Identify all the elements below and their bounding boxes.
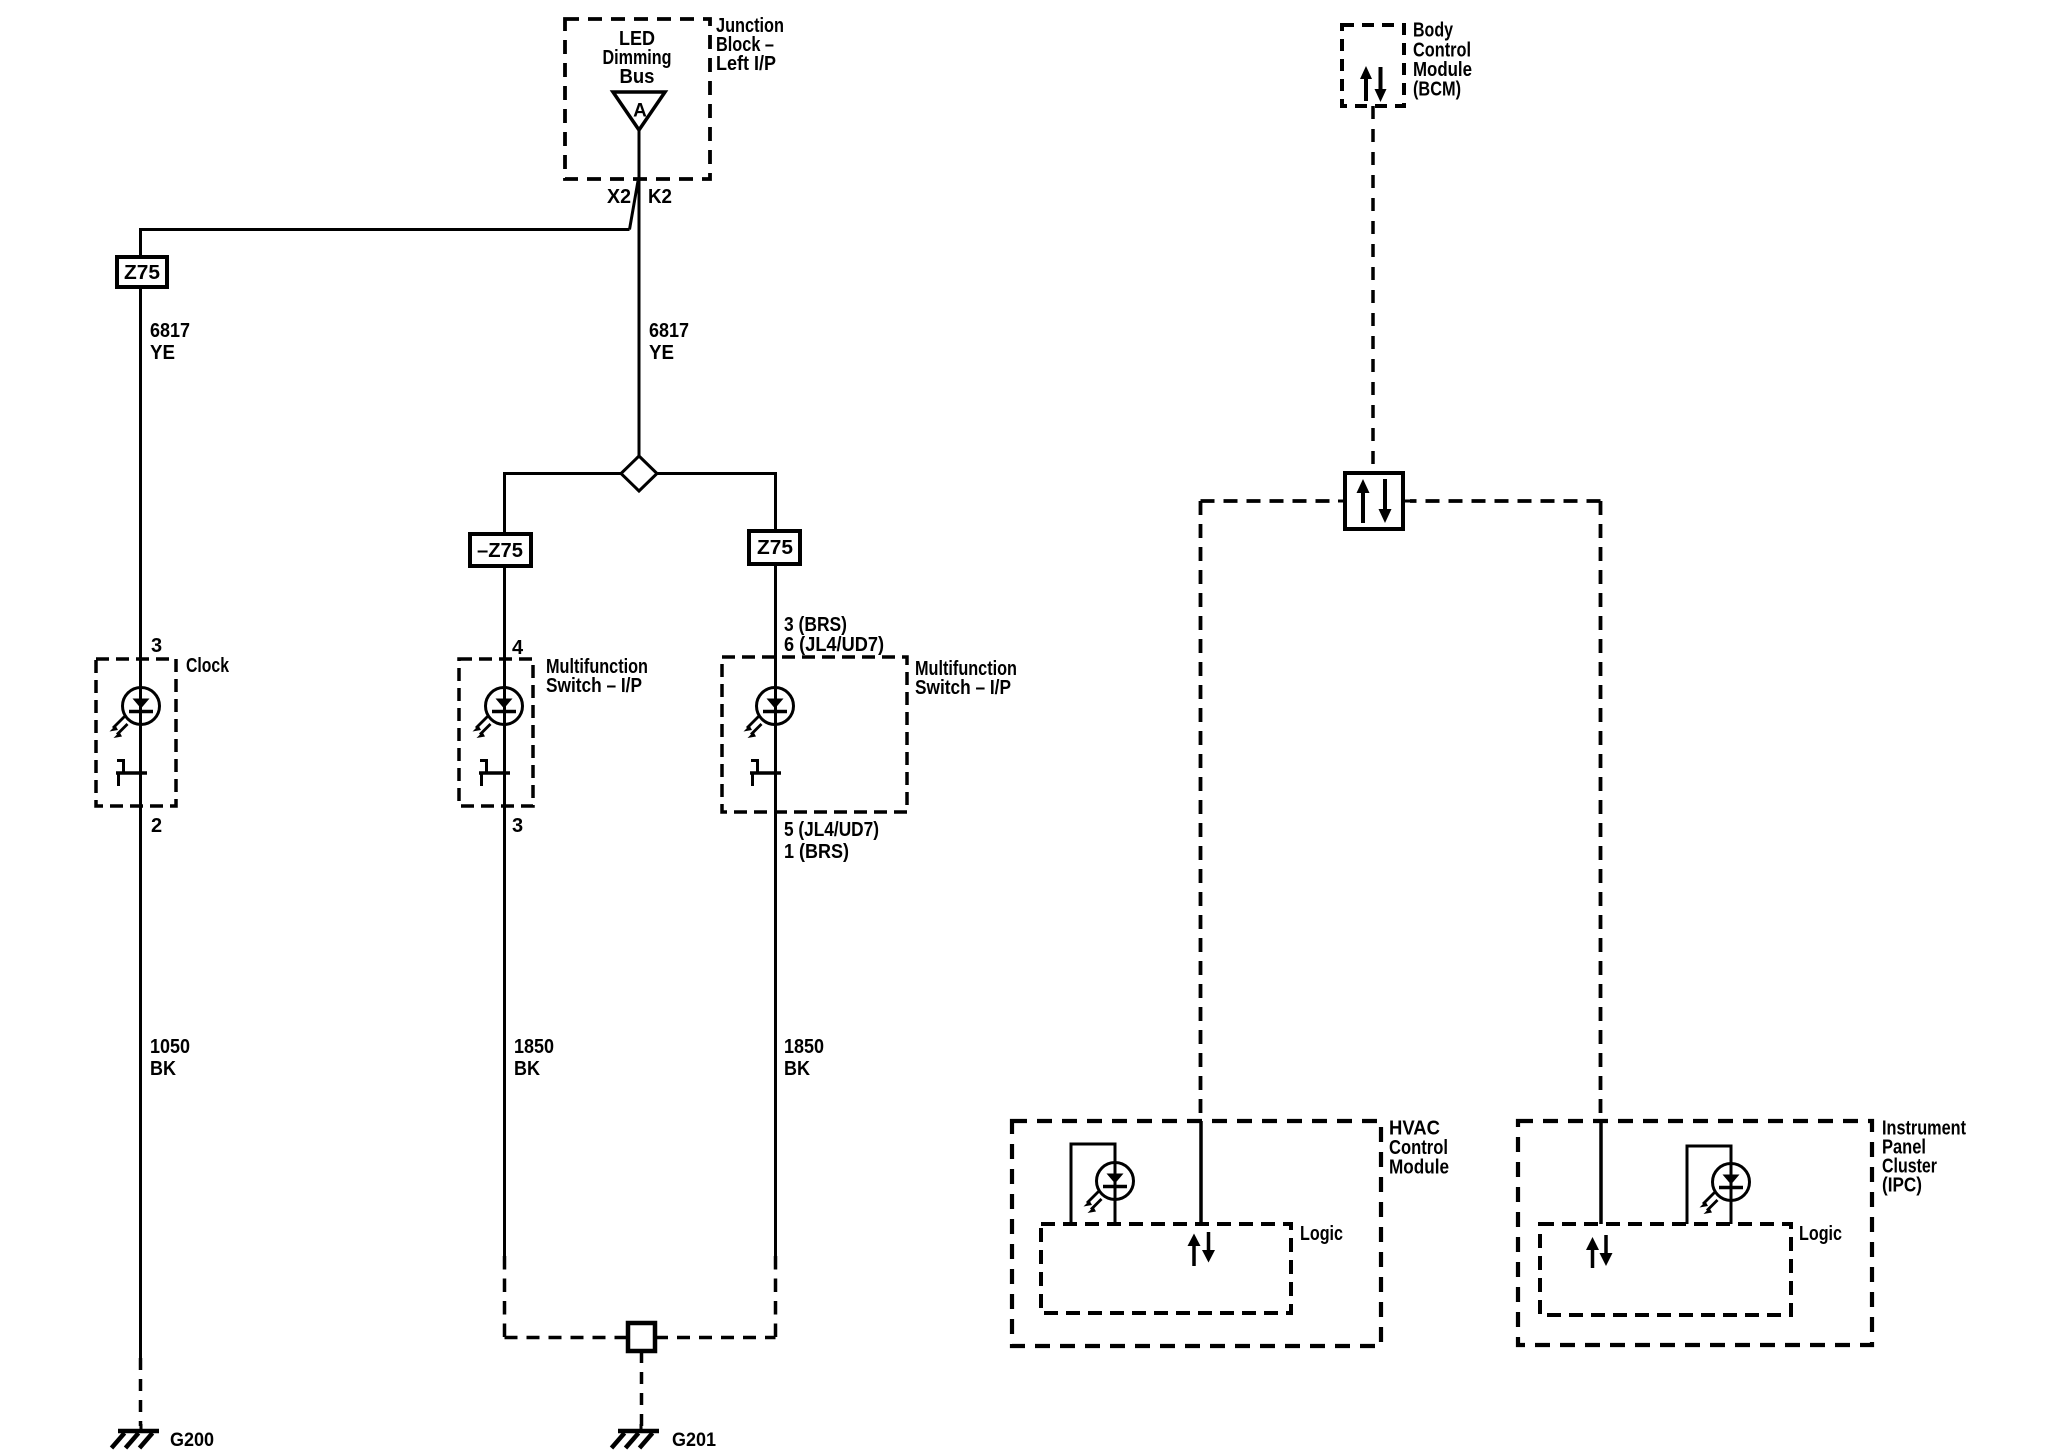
svg-text:Z75: Z75 xyxy=(124,262,160,284)
wire: left column down to Clock xyxy=(139,287,142,659)
wire: MF2 to splice pack xyxy=(774,773,777,1256)
svg-text:Logic: Logic xyxy=(1799,1223,1842,1245)
LED lamp (HVAC backlight) xyxy=(1071,1144,1134,1224)
ground G200 xyxy=(112,1424,160,1448)
wire: internal solid (HVAC) xyxy=(1199,1121,1203,1224)
svg-text:3: 3 xyxy=(151,635,162,657)
svg-text:Z75: Z75 xyxy=(757,537,793,559)
label: circuit 6817 YE (left) xyxy=(150,320,190,364)
serial data symbol (BCM arrows) xyxy=(1360,66,1387,102)
svg-text:BK: BK xyxy=(150,1058,176,1080)
svg-text:Module: Module xyxy=(1389,1157,1449,1179)
svg-text:BK: BK xyxy=(784,1058,810,1080)
junction block module box (Junction Block - Left I/P) xyxy=(565,19,710,179)
wire: dashed lead to G200 xyxy=(139,1358,143,1426)
connector Z75 (right) xyxy=(749,531,800,564)
svg-text:BK: BK xyxy=(514,1058,540,1080)
bus symbol A (triangle) xyxy=(613,92,665,130)
wire: MF1 to splice pack xyxy=(503,773,506,1256)
connector -Z75 xyxy=(470,534,531,566)
label: LED Dimming Bus xyxy=(603,28,672,88)
svg-text:(BCM): (BCM) xyxy=(1413,79,1461,101)
label: circuit 1850 BK (left) xyxy=(514,1036,554,1080)
LED lamp (MF switch 2) xyxy=(744,657,794,773)
svg-text:Bus: Bus xyxy=(620,66,655,88)
logic box (HVAC) xyxy=(1041,1224,1291,1313)
label: circuit 6817 YE (center) xyxy=(649,320,689,364)
svg-text:Logic: Logic xyxy=(1300,1223,1343,1245)
splice pack dashed bottom xyxy=(505,1336,776,1340)
svg-text:1 (BRS): 1 (BRS) xyxy=(784,841,849,863)
svg-text:6817: 6817 xyxy=(150,320,190,342)
wire: internal solid (IPC) xyxy=(1599,1121,1603,1224)
svg-text:YE: YE xyxy=(150,342,175,364)
logic box (IPC) xyxy=(1540,1224,1791,1315)
svg-text:1050: 1050 xyxy=(150,1036,190,1058)
case connection symbol (Clock) xyxy=(116,761,147,787)
case connection symbol (MF switch 2) xyxy=(750,761,781,787)
ground G201 xyxy=(612,1424,660,1448)
wire: Z75 down to MF switch 2 xyxy=(774,564,777,657)
serial data arrows (IPC logic) xyxy=(1586,1235,1613,1268)
module box: Multifunction Switch - I/P (right) xyxy=(722,657,907,812)
module box: HVAC Control Module xyxy=(1012,1121,1381,1346)
wire: dashed BCM to data link box xyxy=(1371,106,1375,473)
svg-text:3 (BRS): 3 (BRS) xyxy=(784,614,847,636)
svg-text:Clock: Clock xyxy=(186,655,230,677)
module box: Clock xyxy=(96,659,176,806)
svg-text:A: A xyxy=(633,101,647,122)
wire: -Z75 down to MF switch 1 xyxy=(503,566,506,659)
svg-text:(IPC): (IPC) xyxy=(1882,1175,1922,1197)
svg-text:X2: X2 xyxy=(607,186,631,208)
wire: main vertical from triangle to splice xyxy=(638,130,641,457)
label: HVAC Control Module xyxy=(1389,1118,1449,1179)
svg-text:3: 3 xyxy=(512,815,523,837)
splice pack dashed box right side xyxy=(774,1256,778,1337)
svg-text:4: 4 xyxy=(512,637,524,659)
svg-text:G200: G200 xyxy=(170,1430,214,1451)
svg-text:1850: 1850 xyxy=(784,1036,824,1058)
wire: dashed data bus right xyxy=(1410,501,1601,1121)
label: Junction Block - Left I/P xyxy=(716,15,784,75)
wire: diagonal branch jog xyxy=(630,181,639,230)
label: Multifunction Switch - I/P (right) xyxy=(915,658,1017,699)
LED lamp (Clock illumination) xyxy=(110,659,160,773)
module box: Multifunction Switch - I/P (left) xyxy=(459,659,533,806)
module box: Body Control Module (BCM) xyxy=(1342,25,1404,106)
svg-text:G201: G201 xyxy=(672,1430,716,1451)
svg-text:Switch – I/P: Switch – I/P xyxy=(915,677,1011,699)
svg-text:–Z75: –Z75 xyxy=(477,540,523,562)
LED lamp (MF switch 1) xyxy=(473,659,523,773)
label: Multifunction Switch - I/P (left) xyxy=(546,656,648,697)
splice pack connector square xyxy=(628,1323,655,1351)
wire: splice horizontal left xyxy=(505,474,622,535)
wire: dashed data bus left xyxy=(1201,501,1339,1121)
svg-text:Left I/P: Left I/P xyxy=(716,53,776,75)
svg-text:6817: 6817 xyxy=(649,320,689,342)
label: Instrument Panel Cluster (IPC) xyxy=(1882,1118,1966,1197)
wire: splice horizontal right xyxy=(657,474,776,532)
wire: horizontal branch to left column xyxy=(141,230,630,258)
svg-text:Switch – I/P: Switch – I/P xyxy=(546,675,642,697)
LED lamp (IPC backlight) xyxy=(1687,1146,1750,1224)
wire: Clock to ground xyxy=(139,773,142,1358)
svg-text:2: 2 xyxy=(151,815,162,837)
splice pack dashed box left side xyxy=(503,1256,507,1337)
serial data arrows (HVAC logic) xyxy=(1188,1232,1216,1266)
svg-text:5 (JL4/UD7): 5 (JL4/UD7) xyxy=(784,819,879,841)
module box: Instrument Panel Cluster (IPC) xyxy=(1518,1121,1872,1345)
pin 5 (JL4/UD7) / 1 (BRS) xyxy=(784,819,879,863)
label: Body Control Module (BCM) xyxy=(1413,20,1472,101)
svg-text:Body: Body xyxy=(1413,20,1454,42)
svg-text:K2: K2 xyxy=(648,186,672,208)
data link box (solid, arrows) xyxy=(1338,473,1410,529)
pin 3 (BRS) / 6 (JL4/UD7) xyxy=(784,614,884,656)
splice node (diamond) xyxy=(621,456,657,491)
svg-text:YE: YE xyxy=(649,342,674,364)
wire: dashed lead to G201 xyxy=(640,1351,644,1426)
case connection symbol (MF switch 1) xyxy=(479,761,510,787)
label: circuit 1050 BK xyxy=(150,1036,190,1080)
svg-text:1850: 1850 xyxy=(514,1036,554,1058)
svg-text:6 (JL4/UD7): 6 (JL4/UD7) xyxy=(784,634,884,656)
label: circuit 1850 BK (right) xyxy=(784,1036,824,1080)
connector Z75 (left column) xyxy=(117,257,167,287)
